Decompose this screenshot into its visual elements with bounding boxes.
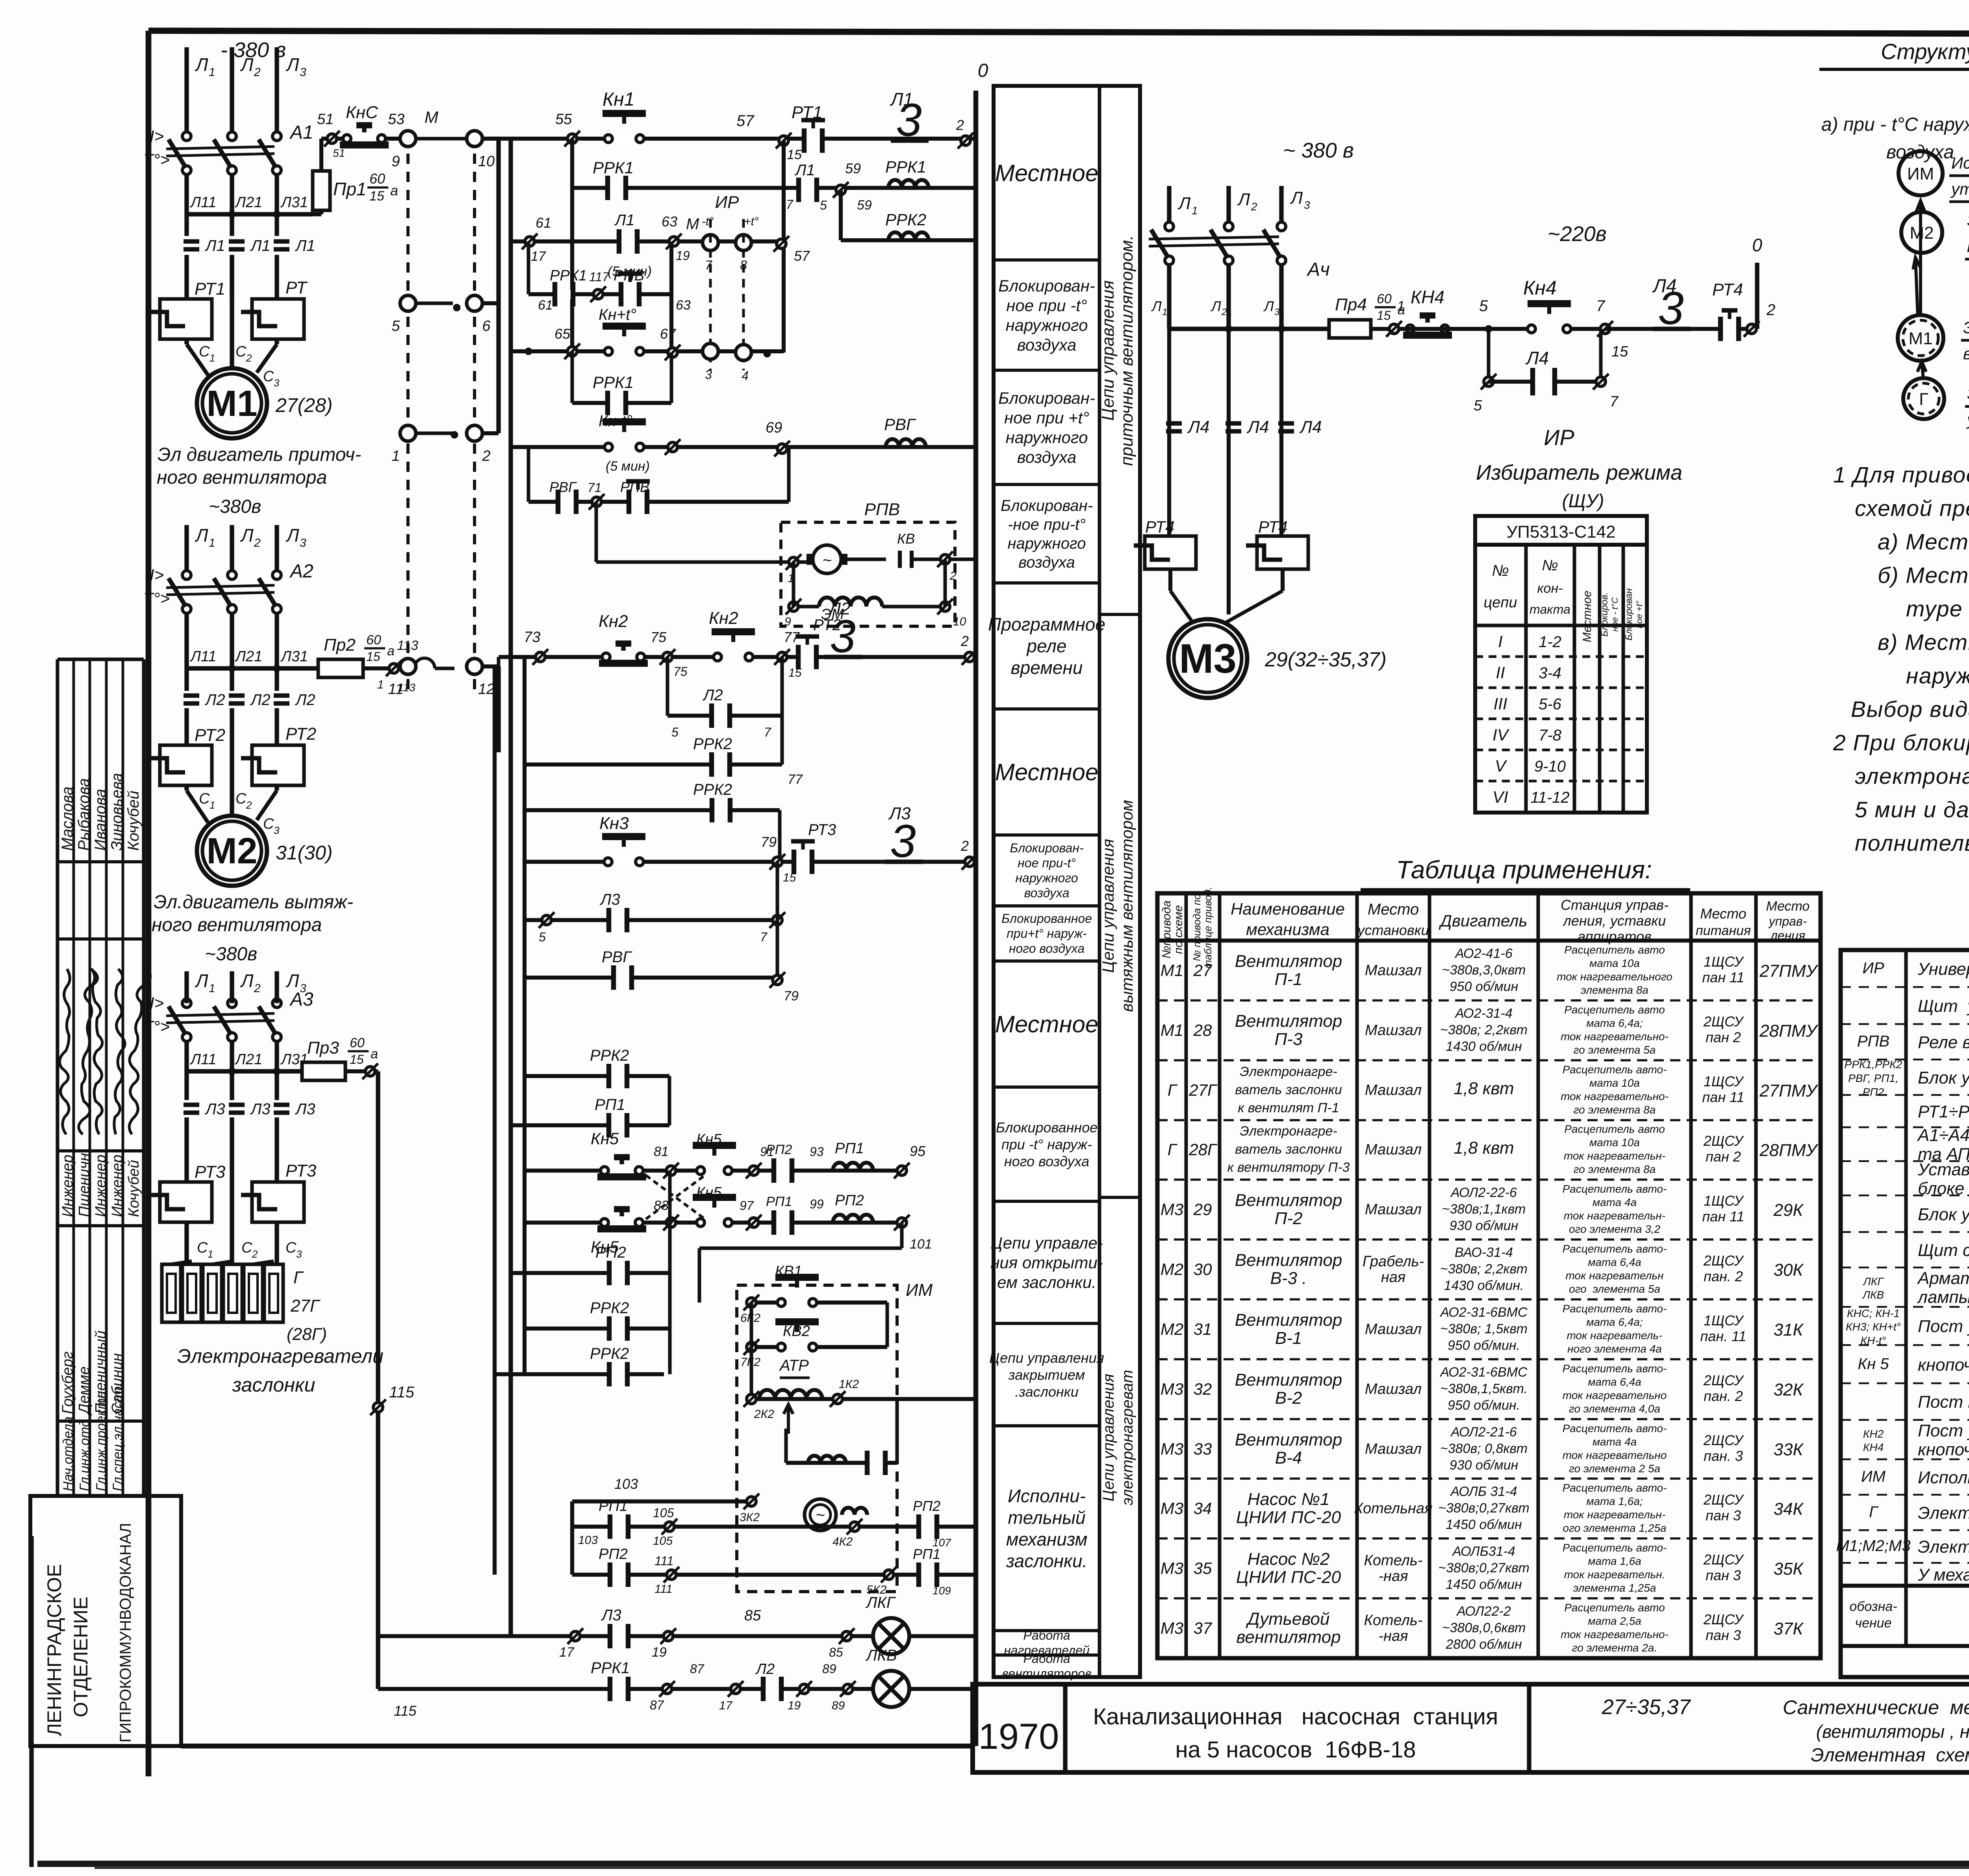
svg-text:31К: 31К bbox=[1774, 1320, 1804, 1340]
svg-text:пан 3: пан 3 bbox=[1706, 1507, 1741, 1523]
motor M1 bbox=[197, 368, 333, 438]
svg-text:ток нагревательно: ток нагревательно bbox=[1563, 1389, 1667, 1401]
heater bus bbox=[187, 1041, 308, 1099]
svg-text:обозна-: обозна- bbox=[1849, 1599, 1897, 1614]
svg-text:РТ: РТ bbox=[286, 278, 308, 297]
svg-text:туре наружного воздуха,: туре наружного воздуха, bbox=[1906, 596, 1969, 622]
svg-text:ИМ: ИМ bbox=[1907, 164, 1934, 184]
application table bbox=[1157, 887, 1821, 1658]
svg-text:РПВ: РПВ bbox=[614, 267, 644, 284]
svg-text:РПВ: РПВ bbox=[864, 500, 900, 519]
svg-text:наружного воздуха: наружного воздуха bbox=[1906, 663, 1969, 688]
rung RP1 coil bbox=[510, 1096, 669, 1137]
svg-text:РП1: РП1 bbox=[913, 1546, 940, 1562]
M2 line contacts L2 bbox=[183, 690, 315, 745]
svg-text:7: 7 bbox=[764, 725, 771, 739]
svg-text:109: 109 bbox=[933, 1585, 951, 1597]
svg-text:Л: Л bbox=[1237, 190, 1250, 209]
svg-text:75: 75 bbox=[651, 629, 667, 645]
svg-text:Гоухберг: Гоухберг bbox=[59, 1351, 76, 1414]
svg-text:Расцепитель авто-: Расцепитель авто- bbox=[1563, 1183, 1667, 1195]
svg-text:2: 2 bbox=[1251, 200, 1257, 213]
svg-text:(вентиляторы , насосы): (вентиляторы , насосы) bbox=[1816, 1721, 1969, 1742]
fuse Pr1 bbox=[313, 139, 398, 214]
svg-text:КВ2: КВ2 bbox=[783, 1323, 810, 1340]
electric heaters G bbox=[162, 1261, 327, 1344]
svg-text:35К: 35К bbox=[1774, 1559, 1804, 1579]
svg-text:2ЩСУ: 2ЩСУ bbox=[1703, 1492, 1744, 1508]
svg-text:Электродвигатель: Электродвигатель bbox=[1918, 1537, 1969, 1557]
svg-text:34К: 34К bbox=[1774, 1499, 1804, 1519]
svg-text:М3: М3 bbox=[1161, 1619, 1183, 1637]
svg-text:Кн5: Кн5 bbox=[591, 1129, 619, 1148]
svg-text:ИР: ИР bbox=[715, 193, 739, 212]
M1 stator leads C1 C2 C3 bbox=[187, 255, 280, 389]
svg-text:15: 15 bbox=[783, 871, 796, 884]
M2 feeder lines bbox=[187, 525, 306, 571]
thermal relay RT heater bbox=[241, 278, 308, 339]
svg-text:воздуха: воздуха bbox=[1018, 554, 1075, 571]
svg-text:60: 60 bbox=[366, 633, 381, 648]
svg-text:Пост местного управлен.: Пост местного управлен. bbox=[1918, 1392, 1969, 1412]
svg-text:лампы: лампы bbox=[1917, 1288, 1969, 1307]
svg-text:при+t° наруж-: при+t° наруж- bbox=[1007, 926, 1087, 941]
svg-text:1: 1 bbox=[210, 799, 215, 811]
svg-text:Вентилятор: Вентилятор bbox=[1235, 1430, 1342, 1449]
svg-text:Л: Л bbox=[195, 525, 208, 546]
svg-text:Программное: Программное bbox=[988, 614, 1105, 635]
svg-text:37: 37 bbox=[1194, 1619, 1213, 1637]
svg-text:2ЩСУ: 2ЩСУ bbox=[1703, 1372, 1744, 1388]
svg-text:Цепи управле-: Цепи управле- bbox=[990, 1234, 1103, 1252]
rung RVG 79 bbox=[525, 948, 799, 1004]
rung RP2 seal bbox=[510, 1244, 670, 1285]
button Kn4 bbox=[1489, 277, 1628, 360]
svg-text:1-2: 1-2 bbox=[1539, 633, 1561, 651]
mode label column bbox=[988, 86, 1140, 1681]
svg-text:РТ3: РТ3 bbox=[808, 821, 836, 839]
svg-text:Л: Л bbox=[286, 970, 299, 991]
svg-text:Л21: Л21 bbox=[234, 1051, 262, 1068]
M1 feeder lines L1 L2 L3 bbox=[187, 38, 306, 132]
svg-text:2: 2 bbox=[1766, 301, 1775, 319]
svg-text:89: 89 bbox=[822, 1662, 836, 1676]
svg-text:Демме: Демме bbox=[76, 1366, 93, 1416]
svg-text:Л: Л bbox=[240, 525, 254, 546]
svg-text:Пр2: Пр2 bbox=[324, 635, 356, 655]
svg-text:КН4: КН4 bbox=[1863, 1441, 1884, 1453]
svg-text:30К: 30К bbox=[1774, 1260, 1804, 1280]
svg-text:РТ2: РТ2 bbox=[286, 724, 316, 744]
M1 line contacts L1 bbox=[183, 237, 315, 299]
svg-text:1ЩСУ: 1ЩСУ bbox=[1704, 1312, 1744, 1329]
svg-text:РВГ: РВГ bbox=[549, 479, 577, 495]
svg-text:7: 7 bbox=[760, 930, 768, 944]
svg-text:1ЩСУ: 1ЩСУ bbox=[1704, 954, 1744, 970]
svg-text:1450 об/мин: 1450 об/мин bbox=[1446, 1577, 1522, 1592]
svg-text:2: 2 bbox=[254, 982, 261, 995]
svg-text:15: 15 bbox=[350, 1052, 364, 1067]
svg-text:РТ3: РТ3 bbox=[286, 1161, 317, 1180]
svg-text:Л: Л bbox=[240, 970, 254, 991]
svg-text:85: 85 bbox=[829, 1645, 843, 1659]
svg-text:блоке управления.: блоке управления. bbox=[1918, 1179, 1969, 1198]
svg-text:Машзал: Машзал bbox=[1365, 1321, 1422, 1338]
M1 caption bbox=[157, 444, 361, 517]
svg-text:61: 61 bbox=[536, 215, 551, 231]
svg-text:1: 1 bbox=[209, 982, 215, 995]
svg-text:мата 10а: мата 10а bbox=[1589, 1136, 1640, 1149]
svg-text:Кн-t°: Кн-t° bbox=[599, 412, 632, 430]
svg-text:105: 105 bbox=[653, 1535, 673, 1548]
fuse Pr4 bbox=[1329, 291, 1405, 338]
fuse Pr2 bbox=[318, 633, 418, 694]
svg-text:на 5 насосов 16ФВ-18: на 5 насосов 16ФВ-18 bbox=[1175, 1737, 1416, 1763]
RT4 heater right bbox=[1246, 518, 1308, 569]
svg-text:ток нагревательн-: ток нагревательн- bbox=[1564, 1150, 1665, 1162]
svg-text:пан 2: пан 2 bbox=[1706, 1149, 1741, 1165]
svg-text:Л4: Л4 bbox=[1299, 418, 1322, 437]
rung Kn2 RT2 L2 bbox=[499, 599, 977, 679]
svg-text:Г: Г bbox=[1168, 1140, 1178, 1159]
svg-text:ного воздуха: ного воздуха bbox=[1009, 941, 1085, 956]
svg-text:IV: IV bbox=[1493, 726, 1510, 744]
svg-text:а) при - t°C наружного: а) при - t°C наружного bbox=[1821, 114, 1969, 135]
svg-text:РТ1÷РТ4 Реле тепловое: РТ1÷РТ4 Реле тепловое bbox=[1918, 1102, 1969, 1121]
M2 bus bbox=[187, 613, 318, 690]
svg-text:ватель заслонки: ватель заслонки bbox=[1235, 1082, 1342, 1097]
svg-text:С: С bbox=[235, 790, 247, 807]
svg-text:Машзал: Машзал bbox=[1365, 1201, 1422, 1218]
svg-text:РТ1: РТ1 bbox=[195, 279, 225, 299]
svg-text:питания: питания bbox=[1696, 923, 1751, 938]
rung Kn3 RT3 L3 bbox=[525, 804, 977, 884]
svg-text:чение: чение bbox=[1855, 1616, 1891, 1631]
M3 feeder lines bbox=[1169, 139, 1354, 222]
svg-text:Расцепитель авто-: Расцепитель авто- bbox=[1563, 1422, 1667, 1434]
svg-text:РРК2: РРК2 bbox=[693, 735, 732, 753]
svg-text:19: 19 bbox=[652, 1645, 667, 1660]
svg-text:75: 75 bbox=[673, 664, 688, 679]
motor M3 bbox=[1168, 619, 1387, 698]
rung RRK2 coil bbox=[841, 190, 976, 240]
svg-text:вентилятор: вентилятор bbox=[1236, 1627, 1340, 1647]
svg-text:Реле времени программное: Реле времени программное bbox=[1918, 1033, 1969, 1052]
svg-text:0: 0 bbox=[1752, 235, 1762, 255]
svg-text:115: 115 bbox=[394, 1703, 417, 1719]
svg-text:Блокирован-: Блокирован- bbox=[1010, 841, 1083, 855]
svg-text:Расцепитель авто: Расцепитель авто bbox=[1564, 944, 1665, 956]
svg-text:РРК1: РРК1 bbox=[591, 1659, 630, 1677]
svg-text:28ПМУ: 28ПМУ bbox=[1759, 1021, 1818, 1041]
svg-text:электронагреватели, которые ав: электронагреватели, которые автоматическ… bbox=[1855, 764, 1969, 789]
svg-text:15: 15 bbox=[369, 189, 384, 204]
svg-text:Блокированное: Блокированное bbox=[996, 1119, 1098, 1136]
svg-text:31(30): 31(30) bbox=[276, 842, 333, 864]
svg-text:2ЩСУ: 2ЩСУ bbox=[1703, 1013, 1744, 1030]
svg-text:17: 17 bbox=[559, 1645, 575, 1660]
svg-text:Л3: Л3 bbox=[295, 1100, 315, 1118]
svg-text:11: 11 bbox=[1162, 307, 1172, 317]
svg-text:КН2: КН2 bbox=[1863, 1428, 1884, 1440]
RT4 heater left bbox=[1134, 518, 1196, 569]
svg-text:ого элемента 5а: ого элемента 5а bbox=[1569, 1283, 1660, 1295]
svg-text:пан. 3: пан. 3 bbox=[1704, 1448, 1743, 1464]
L4 bypass branch bbox=[1474, 329, 1619, 414]
svg-text:1: 1 bbox=[209, 536, 215, 549]
svg-text:при -t° наруж-: при -t° наруж- bbox=[1001, 1136, 1092, 1152]
svg-text:кнопочный.: кнопочный. bbox=[1918, 1355, 1969, 1375]
svg-text:~380в;1,1квт: ~380в;1,1квт bbox=[1442, 1202, 1526, 1217]
svg-text:Рыбакова: Рыбакова bbox=[75, 778, 93, 851]
svg-text:ления: ления bbox=[1770, 928, 1805, 943]
svg-text:15: 15 bbox=[1377, 308, 1391, 323]
svg-text:1: 1 bbox=[210, 352, 215, 364]
svg-text:М3: М3 bbox=[1161, 1380, 1183, 1398]
svg-text:РП2: РП2 bbox=[599, 1546, 628, 1562]
svg-text:9: 9 bbox=[391, 153, 400, 170]
svg-text:Иванова: Иванова bbox=[92, 789, 109, 851]
svg-text:19: 19 bbox=[788, 1699, 801, 1712]
svg-text:-ная: -ная bbox=[1379, 1628, 1408, 1644]
svg-text:2: 2 bbox=[252, 1248, 258, 1260]
svg-text:87: 87 bbox=[690, 1662, 705, 1676]
svg-text:Л3: Л3 bbox=[250, 1100, 271, 1118]
svg-text:Л2: Л2 bbox=[295, 691, 315, 709]
svg-text:Блокирован-: Блокирован- bbox=[1001, 497, 1093, 514]
svg-text:Структурная схема приточно-выт: Структурная схема приточно-вытяжной bbox=[1881, 39, 1969, 64]
KnS master switch row bbox=[317, 103, 475, 159]
svg-text:5: 5 bbox=[1479, 297, 1488, 315]
svg-text:КВ1: КВ1 bbox=[775, 1263, 802, 1280]
svg-text:3К2: 3К2 bbox=[740, 1511, 760, 1524]
circuit breaker A4 bbox=[1149, 222, 1330, 280]
svg-text:ток нагревательно-: ток нагревательно- bbox=[1561, 1030, 1669, 1043]
svg-text:19: 19 bbox=[676, 249, 690, 263]
svg-text:мата 1,6а: мата 1,6а bbox=[1588, 1555, 1641, 1567]
svg-text:пан 11: пан 11 bbox=[1702, 1089, 1744, 1105]
svg-text:33: 33 bbox=[1194, 1440, 1212, 1458]
M2 caption bbox=[152, 892, 353, 965]
thermal relay RT3b heater bbox=[241, 1161, 317, 1222]
svg-text:РП1: РП1 bbox=[766, 1194, 792, 1209]
svg-text:РРК1: РРК1 bbox=[593, 373, 634, 392]
svg-text:Пр1: Пр1 bbox=[333, 179, 367, 199]
svg-text:мата 2,5а: мата 2,5а bbox=[1588, 1615, 1641, 1627]
svg-text:кнопочный: кнопочный bbox=[1918, 1440, 1969, 1459]
svg-text:Цепи управления: Цепи управления bbox=[989, 1350, 1104, 1366]
svg-text:ного элемента 4а: ного элемента 4а bbox=[1567, 1343, 1662, 1355]
svg-text:Вентилятор: Вентилятор bbox=[1235, 1370, 1342, 1390]
svg-text:АОЛ22-2: АОЛ22-2 bbox=[1456, 1604, 1511, 1619]
svg-text:Цепи управления: Цепи управления bbox=[1099, 839, 1117, 973]
coil L4 bbox=[1605, 276, 1705, 334]
ATR coil bbox=[743, 1357, 976, 1434]
IR mid dashed bbox=[702, 193, 759, 370]
svg-text:28ПМУ: 28ПМУ bbox=[1759, 1141, 1818, 1160]
contact RT4 bbox=[1705, 280, 1752, 341]
svg-text:3: 3 bbox=[300, 536, 306, 549]
svg-text:Машзал: Машзал bbox=[1365, 962, 1422, 979]
svg-text:53: 53 bbox=[388, 111, 404, 128]
svg-text:67: 67 bbox=[660, 326, 677, 342]
svg-text:С: С bbox=[199, 790, 210, 807]
svg-text:РП1: РП1 bbox=[599, 1498, 628, 1514]
svg-text:Грабель-: Грабель- bbox=[1363, 1253, 1424, 1270]
svg-text:(28Г): (28Г) bbox=[287, 1325, 327, 1344]
svg-text:Щит станции управления: Щит станции управления bbox=[1918, 1241, 1969, 1260]
svg-text:Т°>: Т°> bbox=[143, 150, 170, 169]
svg-text:17: 17 bbox=[531, 249, 546, 264]
svg-text:5: 5 bbox=[1474, 397, 1482, 414]
svg-text:Л2: Л2 bbox=[204, 691, 225, 709]
M3 stator wires bbox=[1169, 329, 1283, 623]
svg-text:А2: А2 bbox=[289, 561, 313, 582]
svg-text:Гл.инж.проекта: Гл.инж.проекта bbox=[94, 1391, 109, 1491]
svg-text:10: 10 bbox=[953, 615, 966, 628]
svg-text:мата 4а: мата 4а bbox=[1593, 1196, 1637, 1208]
svg-text:Блокированное: Блокированное bbox=[1001, 911, 1092, 926]
svg-text:Пшеничн: Пшеничн bbox=[76, 1153, 93, 1217]
svg-text:85: 85 bbox=[744, 1607, 761, 1624]
frame bottom left segment bbox=[181, 1744, 973, 1748]
svg-text:М: М bbox=[425, 108, 438, 126]
svg-text:М1: М1 bbox=[1908, 329, 1932, 348]
svg-text:элемента 1,25а: элемента 1,25а bbox=[1573, 1582, 1656, 1594]
svg-text:Л: Л bbox=[195, 970, 208, 991]
svg-text:ток нагревательн: ток нагревательн bbox=[1566, 1269, 1664, 1282]
svg-text:5 мин и дают разрешение на пус: 5 мин и дают разрешение на пуск приточно… bbox=[1855, 797, 1969, 822]
svg-text:51: 51 bbox=[333, 147, 345, 159]
svg-text:3: 3 bbox=[1304, 199, 1310, 211]
svg-text:Л3: Л3 bbox=[888, 804, 911, 823]
svg-text:1: 1 bbox=[1397, 299, 1405, 314]
svg-text:1: 1 bbox=[208, 1248, 213, 1260]
svg-text:С: С bbox=[197, 1240, 208, 1256]
svg-text:РВГ: РВГ bbox=[602, 948, 632, 966]
svg-text:Расцепитель авто-: Расцепитель авто- bbox=[1563, 1482, 1667, 1494]
scan edge left bottom line bbox=[29, 1536, 33, 1867]
svg-text:Котель-: Котель- bbox=[1364, 1552, 1422, 1569]
svg-text:С: С bbox=[263, 368, 274, 385]
svg-text:С: С bbox=[263, 816, 274, 832]
svg-text:Кн2: Кн2 bbox=[599, 612, 628, 631]
svg-text:Блок управления: Блок управления bbox=[1918, 1205, 1969, 1224]
svg-text:2ЩСУ: 2ЩСУ bbox=[1703, 1432, 1744, 1448]
svg-text:Кн2: Кн2 bbox=[709, 609, 738, 628]
svg-text:М3: М3 bbox=[1161, 1200, 1183, 1219]
svg-text:2: 2 bbox=[482, 448, 490, 464]
svg-text:Вентилятор: Вентилятор bbox=[1235, 1191, 1342, 1210]
svg-text:Электронагре-: Электронагре- bbox=[1240, 1064, 1337, 1079]
svg-text:го элемента 8а: го элемента 8а bbox=[1574, 1163, 1656, 1175]
svg-text:2 При блокированном управлении: 2 При блокированном управлении системы п… bbox=[1833, 730, 1969, 755]
svg-text:0: 0 bbox=[978, 60, 988, 81]
svg-text:пан 2: пан 2 bbox=[1706, 1029, 1741, 1045]
svg-text:65: 65 bbox=[554, 326, 571, 342]
structural chain labels bbox=[1949, 154, 1969, 429]
svg-text:Элементная схема.: Элементная схема. bbox=[1811, 1745, 1969, 1766]
rung RRK2 b bbox=[525, 781, 780, 862]
svg-text:ное - t°C: ное - t°C bbox=[1610, 597, 1620, 631]
svg-text:мата 6,4а: мата 6,4а bbox=[1588, 1256, 1641, 1268]
svg-text:Т°>: Т°> bbox=[143, 1017, 170, 1036]
svg-text:~380в; 0,8квт: ~380в; 0,8квт bbox=[1440, 1441, 1528, 1456]
rung Kn plus t bbox=[511, 306, 784, 383]
svg-text:Л: Л bbox=[1177, 194, 1191, 213]
svg-text:63: 63 bbox=[662, 213, 677, 230]
svg-text:VI: VI bbox=[1493, 788, 1508, 806]
svg-text:103: 103 bbox=[614, 1476, 638, 1492]
svg-text:го элемента 2 5а: го элемента 2 5а bbox=[1569, 1462, 1660, 1475]
svg-text:Нач.отдела: Нач.отдела bbox=[61, 1416, 76, 1491]
svg-text:30: 30 bbox=[1194, 1260, 1212, 1279]
svg-text:по схеме: по схеме bbox=[1172, 905, 1185, 954]
structural scheme title bbox=[1819, 39, 1969, 105]
svg-text:Блокирован: Блокирован bbox=[1624, 588, 1634, 640]
svg-text:57: 57 bbox=[794, 248, 810, 264]
svg-text:а: а bbox=[387, 644, 395, 659]
svg-text:Электронагреватели: Электронагреватели bbox=[1967, 384, 1969, 403]
svg-text:Блокирован-: Блокирован- bbox=[998, 389, 1095, 407]
label 220v bbox=[1548, 222, 1607, 246]
svg-text:пан 3: пан 3 bbox=[1706, 1567, 1741, 1583]
svg-text:Избиратель режима: Избиратель режима bbox=[1476, 461, 1682, 484]
svg-text:1430 об/мин: 1430 об/мин bbox=[1446, 1039, 1522, 1054]
fuse Pr3 bbox=[302, 1035, 378, 1080]
svg-text:Электронагреватель: Электронагреватель bbox=[1918, 1503, 1969, 1523]
svg-text:ИР: ИР bbox=[1544, 425, 1574, 450]
svg-text:29К: 29К bbox=[1773, 1201, 1804, 1220]
svg-text:15: 15 bbox=[366, 649, 380, 664]
svg-text:РПВ: РПВ bbox=[1857, 1033, 1889, 1050]
svg-text:Расцепитель авто-: Расцепитель авто- bbox=[1563, 1063, 1667, 1076]
svg-text:1970: 1970 bbox=[979, 1716, 1059, 1757]
motor M2 bbox=[197, 816, 333, 886]
svg-text:Станция управ-: Станция управ- bbox=[1561, 897, 1669, 913]
svg-text:мата 6,4а;: мата 6,4а; bbox=[1586, 1017, 1643, 1029]
svg-text:Л2: Л2 bbox=[702, 687, 723, 704]
svg-text:№ привода по: № привода по bbox=[1191, 894, 1203, 961]
svg-text:ное +t°: ное +t° bbox=[1634, 601, 1644, 629]
structural scheme subtitles bbox=[1821, 114, 1969, 163]
svg-text:34: 34 bbox=[1194, 1499, 1212, 1518]
M3 phase drops bbox=[1151, 264, 1285, 329]
svg-text:81: 81 bbox=[654, 1144, 669, 1159]
svg-text:Кн3: Кн3 bbox=[599, 814, 629, 833]
svg-text:~380в,1,5квт.: ~380в,1,5квт. bbox=[1440, 1381, 1528, 1396]
svg-text:5: 5 bbox=[671, 725, 679, 739]
svg-text:35: 35 bbox=[1194, 1559, 1212, 1577]
svg-text:Вентилятор: Вентилятор bbox=[1235, 952, 1342, 971]
svg-text:11: 11 bbox=[388, 681, 403, 698]
svg-text:Л11: Л11 bbox=[189, 1051, 217, 1068]
svg-text:ЛКВ: ЛКВ bbox=[1862, 1289, 1884, 1301]
svg-text:Л2: Л2 bbox=[755, 1661, 775, 1677]
svg-text:Гл.инж.отд: Гл.инж.отд bbox=[77, 1420, 92, 1491]
svg-text:.заслонки: .заслонки bbox=[1015, 1384, 1079, 1400]
svg-text:93: 93 bbox=[810, 1145, 824, 1159]
svg-text:37К: 37К bbox=[1774, 1619, 1804, 1638]
svg-text:Кочубей: Кочубей bbox=[125, 790, 142, 851]
svg-text:РП2: РП2 bbox=[913, 1498, 940, 1514]
svg-text:Электронагреватели: Электронагреватели bbox=[177, 1345, 384, 1367]
ladder feed rail lower bbox=[482, 666, 499, 752]
svg-text:ИМ: ИМ bbox=[1861, 1468, 1886, 1485]
svg-text:М3: М3 bbox=[1161, 1499, 1183, 1518]
rung 61 L1 63 M bbox=[511, 212, 810, 279]
svg-text:Уставки аппаратов на: Уставки аппаратов на bbox=[1917, 1160, 1969, 1179]
